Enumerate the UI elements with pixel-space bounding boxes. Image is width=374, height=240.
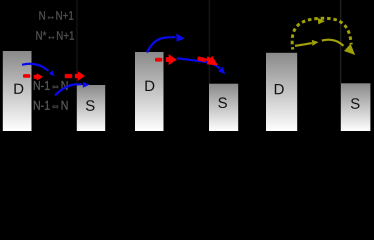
electrode S2 [209,84,238,131]
red arrow 2b [204,54,221,70]
electrode D1 [3,51,32,131]
label S1 [86,100,95,111]
olive hop arrow D3 to dot [295,43,312,46]
electrode D3 [266,53,297,131]
olive arc apex arrowhead [318,18,325,24]
red dash 2a [155,58,162,62]
text N*<->N+1 [36,31,74,39]
text N<->N+1 [39,11,73,19]
electrode D2 [135,52,164,131]
blue hop arrow over D2 [147,37,175,52]
blue hop arrow D1 to dot [22,64,49,71]
red arrow 1a [34,73,43,81]
blue hop arrow dot to S2 [177,58,220,68]
electrode S1 [77,85,105,131]
olive hop arrow dot to S3 [322,40,344,46]
olive virtual-state dashed arc [292,18,351,49]
red arrow 1b [75,71,85,81]
barrier line above S2 [208,0,210,84]
red dash 2b [197,56,206,62]
label D2 [145,81,154,91]
text N-1<=>N line1 [34,81,68,90]
barrier line above S3 [340,0,342,84]
electrode S3 [341,83,371,131]
red dash 1b [65,74,73,78]
text N-1<=>N line2 [34,101,68,110]
label D1 [14,84,23,94]
red dash 1a [23,74,30,78]
red arrow 2a [166,54,177,65]
label S3 [351,98,360,109]
label S2 [218,97,227,108]
blue hop arrow dot to S1 [55,84,82,95]
olive shared arrowhead [344,44,355,55]
barrier line above S1 [76,0,78,85]
label D3 [275,84,284,94]
